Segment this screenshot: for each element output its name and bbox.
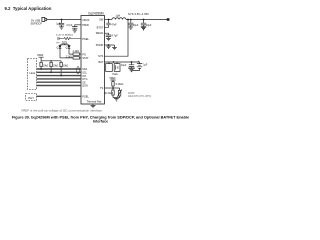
resistor R4 10k [50, 61, 52, 73]
resistor R5 10k [60, 61, 62, 76]
svg-text:PG: PG [82, 52, 86, 56]
op-amp U1 bq24296M IC body [81, 16, 105, 105]
capacitor C1 1uF [59, 20, 64, 27]
svg-text:BAT: BAT [98, 60, 103, 64]
svg-text:QON: QON [82, 85, 88, 88]
svg-text:9.2 Typical Application: 9.2 Typical Application [5, 6, 52, 11]
ground PGND B [112, 45, 117, 50]
svg-text:4.7µF: 4.7µF [66, 24, 73, 27]
ground under C4 [129, 27, 134, 29]
wire SCL [37, 71, 81, 73]
capacitor C5 10uF [143, 19, 145, 21]
resistor R-PSEL zigzag [60, 37, 81, 39]
capacitor C6 4.7uF [106, 35, 111, 38]
svg-text:PHY: PHY [56, 42, 61, 44]
svg-text:1µF: 1µF [143, 64, 148, 67]
node rail-R4 [50, 60, 51, 61]
ground under C6 [106, 38, 111, 40]
svg-text:30.31kΩ: 30.31kΩ [104, 92, 113, 95]
svg-text:VREF is the pull-up voltage of: VREF is the pull-up voltage of I2C commu… [21, 109, 103, 113]
svg-text:PSEL: PSEL [82, 37, 89, 41]
battery pack box B with cell [116, 62, 118, 64]
svg-text:10kΩ: 10kΩ [63, 65, 69, 67]
ground under C7 bold [128, 68, 134, 71]
svg-text:10kΩ: 10kΩ [43, 65, 49, 67]
ground TS [114, 98, 119, 101]
wire PMID stub [75, 25, 81, 27]
battery pack box A [108, 62, 110, 64]
svg-text:10kΩ NTC (0°C–45°C): 10kΩ NTC (0°C–45°C) [128, 96, 151, 98]
svg-text:10µF: 10µF [146, 24, 152, 27]
SYS rail [126, 19, 167, 21]
svg-text:D+/D−(1.5A Max): D+/D−(1.5A Max) [56, 33, 73, 36]
resistor R7 30.31k [112, 88, 114, 90]
capacitor C3 47nF [105, 20, 111, 28]
SYS rail end terminal [167, 18, 170, 21]
ground under C1 [59, 27, 64, 29]
svg-text:Interface: Interface [93, 120, 108, 124]
svg-text:4.7µF: 4.7µF [112, 35, 119, 38]
svg-text:5.23kΩ: 5.23kΩ [116, 83, 124, 86]
svg-text:SW: SW [99, 18, 104, 22]
svg-text:PSEL: PSEL [82, 95, 89, 99]
node VBUS junction [61, 19, 63, 21]
TS bottom rail [113, 97, 120, 99]
wire VBUS input [47, 19, 81, 21]
PHY dashed box [26, 94, 37, 101]
svg-text:SYS: SYS [98, 54, 103, 58]
wire SDA [37, 68, 81, 70]
wire BAT [105, 61, 138, 63]
battery B1 cell [132, 62, 143, 70]
svg-text:10µF: 10µF [121, 64, 127, 67]
svg-text:1µH: 1µH [116, 14, 121, 17]
LED D1 [59, 46, 62, 49]
svg-text:PHY: PHY [28, 96, 34, 100]
Host dashed box [28, 59, 37, 90]
terminal from PHY [58, 37, 60, 40]
svg-text:SYS 3.5V–4.35V: SYS 3.5V–4.35V [128, 12, 149, 16]
svg-text:VREF: VREF [37, 54, 44, 57]
svg-text:TS: TS [100, 86, 104, 90]
svg-text:10kΩ: 10kΩ [53, 65, 59, 67]
thermal pad ground [91, 104, 96, 108]
svg-text:bq24296M: bq24296M [89, 12, 104, 16]
wire PSEL [37, 95, 82, 97]
svg-text:BTST: BTST [97, 25, 104, 29]
svg-text:PGND: PGND [96, 43, 104, 47]
ground under C5 [141, 27, 146, 30]
svg-text:10µF: 10µF [133, 24, 139, 27]
svg-text:STAT: STAT [82, 56, 89, 60]
svg-text:Pack: Pack [113, 73, 119, 76]
capacitor C7 [129, 62, 134, 68]
wire TS [105, 87, 120, 89]
resistor R3 10k [40, 61, 42, 69]
I2C bus ellipse [77, 66, 80, 74]
capacitor C4 10uF [130, 19, 132, 21]
svg-text:Host: Host [30, 71, 36, 75]
svg-text:REGN: REGN [96, 31, 104, 35]
wire PGND [105, 44, 115, 46]
svg-text:PMID: PMID [82, 23, 89, 27]
capacitor C2 4.7uF [72, 27, 77, 30]
input connector J1 [42, 17, 45, 21]
svg-text:103AT: 103AT [128, 92, 135, 95]
svg-text:SDP/DCP: SDP/DCP [31, 22, 43, 26]
svg-text:47nF: 47nF [111, 23, 117, 26]
node SYS drop [127, 19, 129, 21]
svg-text:Thermal Pad: Thermal Pad [87, 100, 102, 104]
wire SYS pin to rail [105, 20, 129, 57]
ground PGND A [106, 45, 111, 49]
wire CE [37, 81, 81, 83]
wire SW [105, 19, 113, 21]
svg-text:VBUS: VBUS [82, 18, 89, 22]
thermistor RT1 [119, 88, 121, 90]
ground under C2 [73, 30, 78, 32]
wire INT [37, 75, 81, 77]
wire REGN [105, 33, 109, 35]
LED D2 [68, 46, 71, 49]
wire OTG [37, 78, 81, 80]
wire QON [37, 85, 81, 87]
resistor R6 5.23k [112, 82, 114, 86]
svg-text:1µF: 1µF [56, 22, 61, 25]
svg-text:2.2kΩ: 2.2kΩ [73, 50, 80, 53]
